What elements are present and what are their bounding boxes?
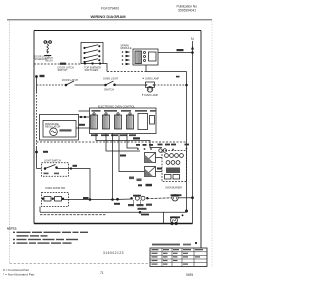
label 4A [79, 124, 85, 126]
EOC connector block 1 [91, 115, 98, 129]
oven lamp 2 [172, 195, 178, 201]
notes line 2 [17, 235, 29, 236]
bake igniter hatched [145, 153, 156, 163]
svg-text:* = Non-Illustrated Part: * = Non-Illustrated Part [3, 273, 35, 277]
bus lower horizontal 1 [40, 211, 187, 213]
wire oven light branch vertical [186, 72, 188, 212]
legend table rows [150, 252, 207, 263]
oven burner orifice dark [166, 168, 180, 174]
switch SW2 [84, 52, 85, 53]
spark module inner block [149, 52, 157, 61]
legend table columns [162, 248, 194, 267]
EOC top label row [92, 110, 101, 112]
switch oven light blade [105, 84, 107, 86]
EOC connector block 4 [127, 115, 134, 129]
switch SW4 [84, 61, 85, 62]
wire regulator to EOC upper [79, 110, 90, 112]
wire EOC out 5 [127, 134, 138, 149]
oven lamp bulb [147, 87, 153, 93]
wire main row [75, 84, 106, 86]
door switch 1 blade [44, 168, 46, 170]
label at box1 exit [73, 165, 78, 167]
pin labels in box1 [44, 173, 49, 175]
label 4B [133, 137, 140, 139]
tick on left bus [43, 151, 48, 153]
svg-text:OVEN LAMP: OVEN LAMP [145, 78, 159, 81]
wire igniter1 to valve [156, 157, 163, 159]
label above connector [133, 195, 141, 197]
bus lower horizontal 2 short [40, 214, 106, 216]
svg-text:SWITCH: SWITCH [104, 89, 114, 92]
label at box2 exit [83, 197, 89, 199]
EOC connector block 3 [115, 115, 122, 129]
label 3A [157, 168, 162, 170]
pin row labels above burner box [136, 144, 189, 151]
wire EOC out 3 [112, 134, 114, 200]
node box1 wire joins [89, 199, 91, 201]
page border left [9, 21, 11, 263]
thermal fuse tick [40, 75, 45, 77]
node on left bus [36, 151, 38, 153]
notes line 1 [13, 232, 88, 244]
page border bottom [10, 262, 151, 264]
burner bottom contacts [165, 175, 172, 180]
connector pair on lower row [131, 197, 133, 199]
gas valve coil row 1 [165, 154, 169, 158]
wire main row dashed segment [37, 84, 66, 86]
N bus arrow [191, 46, 194, 50]
oven burner dashed box [162, 151, 187, 182]
label L dash [176, 76, 180, 78]
wire latch coil [47, 44, 49, 51]
spark module box [133, 49, 158, 65]
wire L1 dashed top bus [34, 63, 81, 65]
label above lamp [143, 78, 144, 79]
spark module inner coil [135, 51, 142, 64]
wire spark module loop [145, 65, 147, 72]
node on L1 wire [36, 76, 38, 78]
oven lamp receptacle [146, 82, 155, 87]
wire lamp to branch dashed [155, 84, 187, 86]
label under lamp [142, 94, 143, 95]
wire N down to bottom bus [192, 198, 194, 224]
svg-text:71: 71 [100, 271, 104, 275]
node on N bus [192, 52, 194, 54]
legend table cell text [152, 249, 204, 265]
wire left bus vertical [36, 77, 38, 93]
wire dashed run to N side [107, 71, 146, 73]
svg-text:N: N [191, 37, 194, 41]
thermostat sensor circle [50, 128, 58, 136]
connector marks on broil row [129, 177, 134, 180]
latch arrow [46, 51, 49, 53]
svg-text:5995394041: 5995394041 [178, 9, 196, 13]
node on lower row [117, 198, 119, 200]
bottom bus wire [34, 223, 193, 225]
header rule [7, 19, 212, 21]
wire spark module to N bus [158, 52, 193, 54]
broil igniter hatched [145, 167, 156, 177]
legend table title [152, 244, 180, 246]
door latch solenoid terminals [44, 41, 47, 44]
label above wire [177, 49, 184, 51]
svg-text:# = Functional Part: # = Functional Part [3, 268, 29, 272]
pressure regulator box [43, 121, 76, 138]
svg-text:MODULE: MODULE [121, 46, 132, 50]
wire N bus vertical [192, 41, 194, 198]
label oven lamp 2 [171, 194, 182, 196]
EOC bottom pin labels [91, 134, 98, 136]
wire EOC out 1 to bake igniter row [96, 134, 162, 148]
label 3B [114, 203, 120, 205]
wire regulator to EOC lower [76, 127, 90, 129]
wire drop to bottom [163, 212, 165, 223]
door switch box 2 dashed [42, 193, 69, 207]
svg-text:OVEN LIGHT: OVEN LIGHT [103, 78, 119, 81]
notes line 3 [13, 239, 15, 240]
EOC small element right [138, 114, 148, 130]
node dots on switch box bottom [84, 63, 86, 65]
gas valve outer box [40, 115, 79, 141]
labels under lower row [128, 204, 134, 206]
spark module electrode pins [122, 51, 131, 65]
svg-text:NOTES:: NOTES: [7, 227, 17, 231]
latch contact bar [44, 55, 51, 57]
svg-text:9495: 9495 [186, 273, 193, 277]
svg-text:OVEN LAMP: OVEN LAMP [144, 94, 158, 97]
notes line 4 [13, 242, 15, 243]
label under burner box [138, 184, 142, 186]
svg-text:RELAY: RELAY [46, 60, 54, 63]
connector blob on dashed bus [60, 63, 66, 65]
spark module inner terminals [144, 52, 146, 54]
wire igniter2 out [156, 171, 163, 173]
node on branch [186, 84, 188, 86]
svg-text:OVEN BURNER: OVEN BURNER [165, 188, 182, 190]
bus lower stub left [39, 207, 41, 213]
wire box2 exit [62, 199, 114, 201]
legend table frame [150, 248, 207, 267]
wire to oven lamp [115, 84, 146, 86]
wire to oven lamp 2 [147, 197, 172, 200]
switch latch blade [65, 84, 67, 86]
EOC connector block 2 [103, 115, 110, 129]
node bus mid [139, 211, 141, 213]
svg-text:316002123: 316002123 [103, 251, 124, 255]
switch SW1 [84, 47, 85, 48]
wire connector drops to bus [133, 200, 135, 204]
node N junction [192, 197, 194, 199]
diagram frame left / L1 wire [33, 31, 35, 224]
gas valve coil row 2 [166, 161, 170, 165]
interlock contacts [44, 197, 51, 202]
node bus meets branch [185, 210, 187, 212]
wire switch bank to spark module [103, 64, 107, 72]
page border right [211, 21, 213, 267]
diagram frame top [34, 30, 201, 32]
convection motor on bottom bus [171, 217, 178, 224]
wire EOC out 2 long down [106, 134, 140, 152]
diagram frame right / N side [200, 31, 202, 249]
svg-text:DOOR LATCH: DOOR LATCH [62, 79, 78, 82]
wire chassis dashed separator [37, 141, 187, 143]
svg-text:OVEN DOOR SW: OVEN DOOR SW [45, 187, 66, 190]
svg-text:WIRING DIAGRAM: WIRING DIAGRAM [90, 14, 126, 19]
wire box1 exit [37, 169, 91, 200]
wire EOC out 4 [119, 134, 145, 172]
svg-text:SWITCHES: SWITCHES [85, 68, 99, 72]
wire lower row to lamp2 [113, 198, 133, 201]
top burner switch bank box [81, 43, 103, 64]
label under bus [141, 214, 149, 216]
EOC box [90, 108, 157, 134]
svg-text:LIGHT SWITCH: LIGHT SWITCH [44, 159, 61, 162]
label 2A [120, 155, 126, 157]
wire lamp2 to N [178, 197, 192, 199]
switch SW3 [84, 57, 85, 58]
label convection fan [170, 216, 180, 218]
svg-text:SWITCH: SWITCH [58, 69, 68, 72]
door switch box 1 dashed [42, 163, 69, 177]
svg-text:FGF379400: FGF379400 [101, 7, 119, 11]
